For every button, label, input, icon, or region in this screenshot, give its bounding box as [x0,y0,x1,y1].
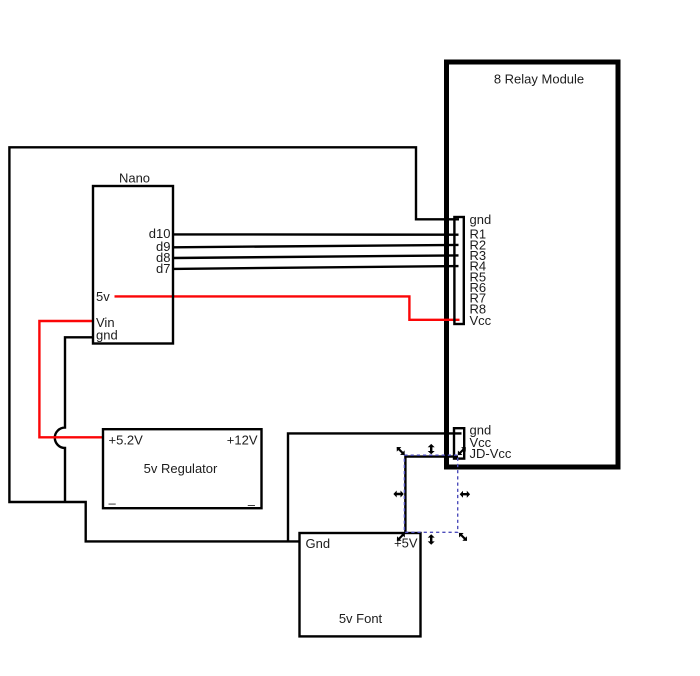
svg-text:Nano: Nano [119,171,150,186]
svg-text:5v Font: 5v Font [339,611,383,626]
wire: Nano d9 to R2 [173,245,459,247]
svg-text:5v Regulator: 5v Regulator [144,461,218,476]
handle: diagonal arrow top-right [456,445,469,458]
wire: Nano d7 to R4 [173,266,459,269]
svg-text:–: – [109,495,117,510]
svg-text:gnd: gnd [470,212,492,227]
handle: vertical arrow below dashed box [428,534,435,544]
wire: ground loop from relay gnd pin around to 5v Font Gnd [9,147,459,541]
relay upper pin header [454,217,463,324]
selection guide: blue dashed rectangle [404,455,457,532]
svg-text:Vcc: Vcc [470,313,492,328]
svg-text:–: – [248,497,256,512]
svg-text:+12V: +12V [227,433,258,448]
svg-text:gnd: gnd [96,327,118,342]
8 Relay Module box [447,62,619,467]
handle: horizontal arrow left of dashed box [393,491,403,498]
svg-text:d7: d7 [156,261,170,276]
Nano box [93,171,173,344]
handle: horizontal arrow right of dashed box [460,491,470,498]
relay lower pin header [454,428,464,458]
wire: Nano d8 to R3 [173,255,459,258]
wire: 5v Font +5V up to relay JD-Vcc [405,457,458,533]
wire: Nano d10 to R1 [173,233,459,236]
svg-text:8 Relay Module: 8 Relay Module [494,72,584,87]
wire: red 5v from Nano to relay Vcc [115,296,460,319]
svg-text:Gnd: Gnd [306,536,331,551]
wire: red Vin from Nano to regulator +5.2V [39,321,103,437]
wire: Nano gnd down with hop over red wire [55,337,93,502]
handle: vertical arrow above dashed box [428,444,435,454]
5v Regulator box [103,429,262,512]
wire: relay lower header gnd to bottom ground rail [288,433,462,541]
handle: diagonal arrow top-left [394,445,407,458]
handle: diagonal arrow bottom-right [457,531,470,544]
handle: diagonal arrow bottom-left [395,531,408,544]
svg-text:5v: 5v [96,289,110,304]
svg-text:+5.2V: +5.2V [109,433,144,448]
svg-text:JD-Vcc: JD-Vcc [470,446,512,461]
5v Font box [300,533,421,636]
